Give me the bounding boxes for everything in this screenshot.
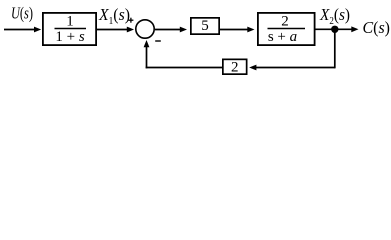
svg-text:C(s): C(s) [363,18,391,37]
svg-text:1 + s: 1 + s [55,29,84,45]
feedback block H gain 2 [223,59,247,75]
svg-text:1: 1 [66,14,74,30]
block G2 transfer function 2/(s+a) [258,13,315,45]
svg-text:2: 2 [281,14,289,30]
wire gain5 to block G2 [220,27,255,33]
plus sign at summer input [128,18,133,23]
minus sign at feedback input [155,40,161,42]
svg-text:X1(s): X1(s) [98,5,130,27]
svg-text:U(s): U(s) [11,4,33,23]
feedback wire into H block with arrow [249,65,335,71]
feedback wire up into summer [144,40,150,68]
wire block1 to summer [97,27,134,33]
svg-text:s + a: s + a [268,29,297,45]
wire input arrow [4,27,41,33]
block G1 transfer function 1/(1+s) [43,13,96,45]
feedback wire H block to corner [146,67,222,69]
wire summer to gain block 5 [155,27,187,33]
svg-text:2: 2 [231,59,239,75]
block gain 5 [191,18,219,34]
svg-text:X2(s): X2(s) [319,5,350,27]
svg-text:5: 5 [201,18,209,34]
summing junction circle [136,20,154,38]
feedback wire down from node [334,29,336,68]
wire G2 to output C(s) [316,26,359,32]
node X2 junction dot [331,26,338,33]
